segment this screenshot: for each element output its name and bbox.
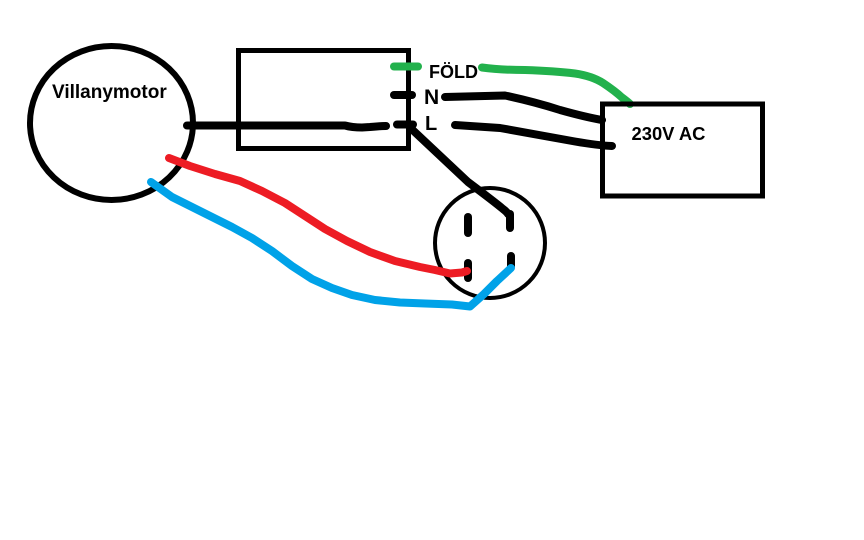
live wire L to AC box xyxy=(455,125,612,146)
AC supply box xyxy=(603,104,763,196)
svg-text:L: L xyxy=(425,113,437,135)
live wire junction to plug xyxy=(411,129,508,215)
plug pin top-right xyxy=(506,214,514,228)
terminal stub FOLD (earth) xyxy=(394,63,418,71)
blue wire motor to plug xyxy=(151,182,511,307)
svg-text:Villanymotor: Villanymotor xyxy=(52,82,167,103)
red wire motor to plug xyxy=(169,158,467,274)
earth wire green to AC box xyxy=(482,68,630,105)
plug socket xyxy=(435,188,545,298)
svg-text:N: N xyxy=(424,86,439,109)
wire motor to junction box xyxy=(187,126,386,128)
plug pin bottom-right xyxy=(507,256,515,266)
terminal stub N xyxy=(394,91,412,99)
plug pin top-left xyxy=(464,217,472,233)
svg-text:FÖLD: FÖLD xyxy=(429,62,478,82)
neutral wire N to AC box xyxy=(445,96,602,121)
plug pin bottom-left xyxy=(464,263,472,278)
junction box xyxy=(239,51,409,149)
svg-text:230V AC: 230V AC xyxy=(632,123,706,144)
terminal stub L xyxy=(397,121,413,129)
motor M1 xyxy=(30,46,193,200)
